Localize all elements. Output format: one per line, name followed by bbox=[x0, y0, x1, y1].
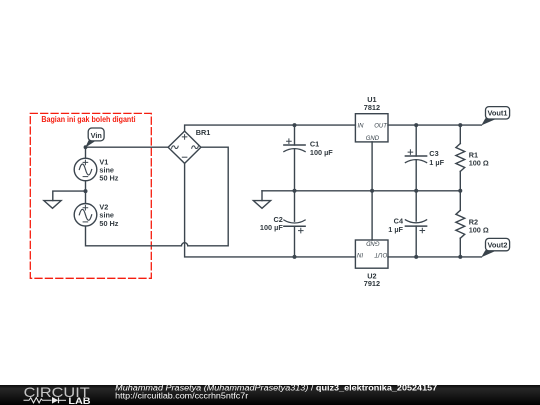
svg-text:IN: IN bbox=[358, 124, 365, 130]
wire: V2 bottom down and right to BR1 right corner riser (with hop) bbox=[86, 147, 229, 246]
junction dot: C3 top node bbox=[414, 123, 418, 127]
wire: junction to ground symbol bbox=[53, 191, 86, 201]
svg-text:7812: 7812 bbox=[364, 103, 380, 112]
wire: junction to V2 top bbox=[85, 191, 87, 203]
wire: U1 OUT rail to Vout1 bbox=[388, 124, 481, 126]
junction dot: R2 bottom node bbox=[458, 255, 462, 259]
label C4 1 uF bbox=[388, 217, 404, 234]
svg-text:OUT: OUT bbox=[374, 124, 388, 130]
svg-text:1 µF: 1 µF bbox=[388, 225, 403, 234]
label R1 100 Ohm bbox=[469, 151, 489, 168]
logo circuit glyph: resistor zigzag and diode bbox=[24, 397, 67, 403]
regulator U1 7812 bbox=[355, 114, 388, 142]
flag Vout1 bbox=[481, 107, 509, 126]
svg-text:BR1: BR1 bbox=[196, 128, 211, 137]
label U1 7812 bbox=[364, 95, 380, 112]
label C1 100 uF bbox=[310, 140, 333, 157]
junction dot: C2 bottom node bbox=[293, 255, 297, 259]
resistor R2 bbox=[456, 191, 465, 257]
wire: ground rail bbox=[262, 190, 460, 192]
junction dot: C1 top node bbox=[293, 123, 297, 127]
ground GND1 bbox=[44, 201, 61, 209]
junction dot: regulators ground node bbox=[370, 189, 374, 193]
svg-text:100 µF: 100 µF bbox=[260, 223, 283, 232]
voltage source V1 bbox=[74, 158, 97, 181]
wire: V1 bottom to mid junction bbox=[85, 181, 87, 191]
junction dot: C3 bottom node bbox=[414, 189, 418, 193]
flag Vin bbox=[84, 128, 105, 149]
U2 pin labels IN OUT GND (rotated 180) bbox=[357, 239, 388, 256]
svg-text:100 Ω: 100 Ω bbox=[469, 158, 489, 167]
wire: BR1 bottom corner down and right to U2 IN bbox=[185, 163, 356, 257]
svg-text:100 Ω: 100 Ω bbox=[469, 225, 489, 234]
bridge rectifier BR1 bbox=[168, 131, 201, 163]
voltage source V2 bbox=[74, 204, 97, 227]
svg-text:50 Hz: 50 Hz bbox=[99, 174, 118, 183]
svg-text:Bagian ini gak boleh diganti: Bagian ini gak boleh diganti bbox=[41, 115, 135, 124]
svg-text:1 µF: 1 µF bbox=[429, 158, 444, 167]
wire: V1 top stub bbox=[85, 147, 87, 158]
junction dot: R1 bottom node bbox=[458, 189, 462, 193]
svg-text:Vout2: Vout2 bbox=[488, 241, 508, 250]
wire: U1 GND pin to ground rail bbox=[371, 142, 373, 191]
svg-text:http://circuitlab.com/cccrhn5n: http://circuitlab.com/cccrhn5ntfc7r bbox=[115, 391, 248, 401]
footer attribution text bbox=[115, 383, 437, 401]
svg-text:C3: C3 bbox=[429, 149, 438, 158]
boundary annotation: red dashed keep-out box bbox=[30, 113, 151, 278]
svg-text:Vout1: Vout1 bbox=[488, 109, 508, 118]
capacitor C4 bbox=[405, 191, 426, 257]
flag Vout2 bbox=[481, 238, 509, 257]
junction dot: C1/C2 ground node bbox=[293, 189, 297, 193]
svg-text:Vin: Vin bbox=[91, 131, 102, 140]
label V2 sine 50 Hz bbox=[99, 203, 118, 228]
U1 pin labels IN OUT GND bbox=[358, 124, 389, 143]
junction dot: C4 bottom node bbox=[414, 255, 418, 259]
capacitor C2 bbox=[284, 191, 305, 257]
label V1 sine 50 Hz bbox=[99, 157, 118, 182]
svg-text:50 Hz: 50 Hz bbox=[99, 219, 118, 228]
label U2 7912 bbox=[364, 271, 380, 288]
resistor R1 bbox=[456, 125, 465, 191]
wire: U2 GND pin up to ground rail bbox=[371, 191, 373, 240]
capacitor C3 bbox=[405, 125, 426, 191]
capacitor C1 bbox=[284, 125, 305, 191]
label C3 1 uF bbox=[429, 149, 444, 167]
junction dot: R1 top node bbox=[458, 123, 462, 127]
ground GND2 bbox=[253, 191, 270, 209]
svg-text:100 µF: 100 µF bbox=[310, 148, 333, 157]
svg-text:LAB: LAB bbox=[68, 396, 91, 405]
svg-text:OUT: OUT bbox=[373, 251, 387, 257]
wire: U2 OUT rail to Vout2 bbox=[388, 256, 481, 258]
wire: Vin rail from flag node to BR1 left corner bbox=[86, 146, 169, 148]
label R2 100 Ohm bbox=[469, 218, 489, 235]
svg-text:7912: 7912 bbox=[364, 279, 380, 288]
svg-text:IN: IN bbox=[357, 251, 364, 257]
wire: BR1 top corner to top rail into U1 IN bbox=[185, 125, 356, 131]
footer black bar bbox=[0, 385, 540, 405]
CircuitLab logo wordmark bbox=[24, 384, 92, 405]
junction dot: V1/V2/ground node bbox=[84, 189, 88, 193]
regulator U2 7912 bbox=[355, 240, 388, 268]
label C2 100 uF bbox=[260, 215, 283, 232]
